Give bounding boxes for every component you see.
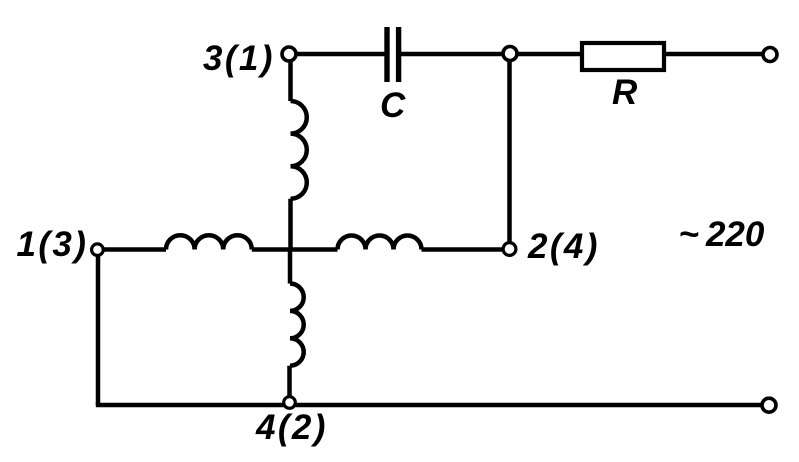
- svg-text:3(1): 3(1): [203, 39, 275, 78]
- wire: crossing down to lower coil: [288, 250, 293, 284]
- right top terminal circle: [763, 48, 777, 62]
- wire: node 2(4) up to top junction: [507, 54, 512, 242]
- wire: node 3(1) down to upper coil: [288, 54, 293, 101]
- capacitor C: [387, 27, 399, 82]
- wire top rail: capacitor C to node 2(4) top junction: [401, 52, 510, 57]
- wire: left coil through crossing to right coil: [252, 247, 338, 252]
- node 3(1) terminal circle: [282, 47, 296, 61]
- svg-text:C: C: [380, 86, 406, 125]
- node 2(4) circle: [503, 243, 516, 256]
- node 1(3) terminal circle: [92, 244, 104, 256]
- wire: upper coil to center crossing: [288, 199, 293, 250]
- svg-text:4(2): 4(2): [255, 408, 328, 447]
- inductor lower vertical coil: [290, 284, 304, 366]
- svg-text:~ 220: ~ 220: [679, 215, 765, 254]
- node top junction circle above 2(4): [503, 47, 517, 61]
- wire: top junction to resistor R: [510, 52, 582, 57]
- wire: right coil to node 2(4): [422, 247, 510, 252]
- inductor upper vertical coil: [291, 101, 307, 199]
- svg-text:2(4): 2(4): [527, 227, 600, 266]
- inductor left horizontal coil: [166, 235, 252, 249]
- inductor right horizontal coil: [338, 236, 422, 250]
- wire: lower coil to node 4(2): [287, 366, 292, 402]
- wire: node 1(3) to left center inductor: [97, 247, 166, 252]
- wire: node 1(3) down left side: [96, 252, 101, 405]
- right bottom terminal circle: [762, 398, 776, 412]
- svg-text:1(3): 1(3): [17, 225, 89, 264]
- wire bottom rail: [96, 403, 763, 408]
- wire: resistor R to right top terminal: [664, 52, 763, 57]
- node 4(2) circle: [284, 397, 296, 409]
- svg-text:R: R: [612, 73, 638, 112]
- wire top rail: node 3(1) to capacitor C: [289, 52, 385, 57]
- resistor R: [582, 43, 664, 70]
